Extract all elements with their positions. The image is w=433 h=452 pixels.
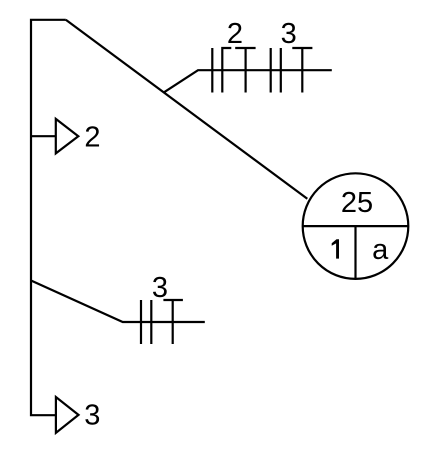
amplifier triangle 2 [56,119,79,153]
capacitor group G2 bar 3 with T cap [245,48,247,93]
wire lower branch [31,281,205,323]
capacitor group G3 bar 1 [270,48,272,93]
wire stub to triangle 2 [31,135,56,137]
capacitor group G3 bar 3 with T cap [301,48,303,93]
machine circle U1 [303,173,409,279]
amplifier triangle 3 [56,397,79,433]
svg-text:3: 3 [84,400,100,432]
capacitor group G3 bar 2 [280,48,282,93]
capacitor group G4 bar 3 with T cap [172,300,174,344]
capacitor group G2 bar 2 with top-right cap [222,48,231,93]
capacitor group G4 bar 1 [140,300,142,344]
capacitor group G4 bar 2 [150,300,152,344]
divider horizontal chord [303,225,409,227]
svg-text:3: 3 [281,18,297,50]
svg-text:3: 3 [152,272,168,304]
label 1 circle [332,239,339,258]
wire branch to upper line [164,70,332,92]
capacitor group G2 bar 1 [211,48,213,93]
svg-text:a: a [372,234,389,266]
svg-text:2: 2 [227,18,243,50]
svg-text:2: 2 [84,121,100,153]
svg-text:25: 25 [341,187,373,219]
divider vertical lower [354,226,356,279]
wire main diagonal [66,20,307,199]
bus bar left vertical with top and bottom stubs [31,20,66,415]
